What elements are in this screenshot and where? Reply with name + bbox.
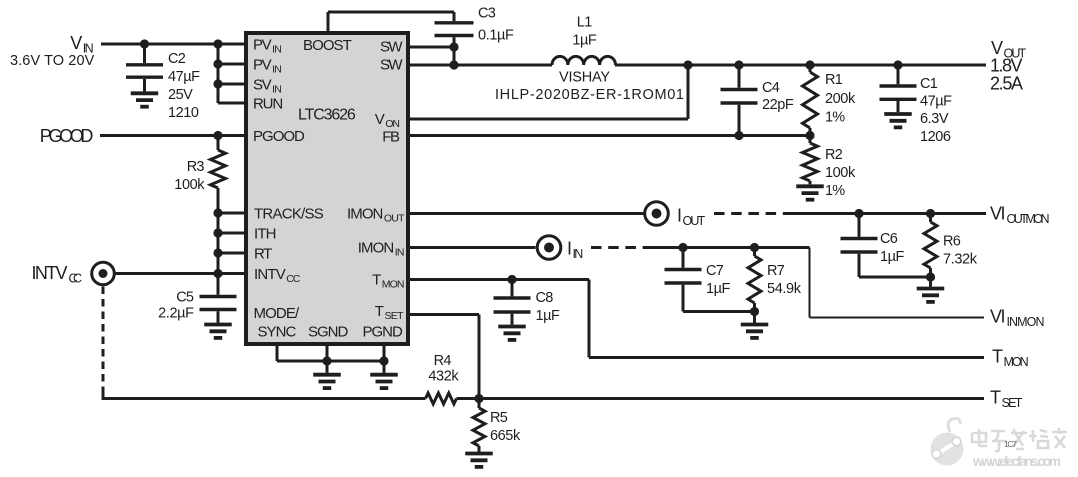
svg-text:INTV: INTV [254,266,286,283]
wire TSET rail left corner [102,387,426,399]
svg-text:6.3V: 6.3V [920,111,949,127]
svg-text:ITH: ITH [254,226,277,243]
wire TSET rail right [479,397,984,400]
svg-text:IN: IN [272,64,282,76]
pin label RUN [253,96,283,113]
svg-text:2.2µF: 2.2µF [158,306,194,322]
node SW2 junction dot [449,60,458,69]
svg-text:IN: IN [395,247,405,259]
wire output rail [615,64,986,67]
svg-text:R1: R1 [825,72,843,88]
pin label SW 2 [380,57,403,74]
svg-text:432k: 432k [428,369,459,385]
node label IIN [567,239,583,262]
node label IOUT [677,206,706,229]
svg-text:2.5A: 2.5A [990,74,1023,94]
label C4 value [762,80,794,113]
node VON tap dot [683,60,692,69]
label R7 value [767,263,802,297]
label VIN range [10,53,95,69]
svg-text:PV: PV [253,57,272,74]
capacitor C8 [494,280,531,325]
svg-text:R2: R2 [825,147,843,163]
svg-text:CC: CC [69,272,83,286]
wire RT stub [213,248,248,257]
svg-text:1.8V: 1.8V [990,56,1023,76]
svg-text:22pF: 22pF [762,97,794,113]
node C7 top dot [678,243,687,252]
pin label PGOOD [253,128,305,145]
wire VON route [406,65,688,119]
svg-text:PV: PV [253,37,272,54]
pin label INTVCC [254,266,301,285]
node TSET junction dot [474,394,483,403]
label R5 value [490,410,521,444]
pin label TMON [372,272,404,291]
label C1 value [920,76,952,145]
ground SGND [313,375,341,388]
wire stub PVIN pin 2 [213,59,248,68]
svg-text:IN: IN [573,247,584,261]
ground PGND [370,375,398,388]
node C1 top dot [893,60,902,69]
svg-text:IHLP-2020BZ-ER-1ROM01: IHLP-2020BZ-ER-1ROM01 [495,87,684,103]
resistor R5 [473,399,485,452]
pin label VON [375,111,400,130]
svg-text:IMON: IMON [347,206,383,223]
wire BOOST loop [328,12,454,33]
svg-text:R5: R5 [490,410,508,426]
wire VIN input [101,43,248,46]
node VIN junction dot C2 [140,39,149,48]
svg-text:CC: CC [286,273,301,285]
wire INTVCC [115,269,249,278]
svg-text:BOOST: BOOST [303,37,352,54]
pin label SVIN [253,77,282,96]
pin label TSET [375,303,404,322]
node IOUT terminal circle [645,202,669,226]
wire PGND drop [379,344,388,373]
wire IMONOUT [406,212,644,215]
svg-text:MON: MON [1004,355,1029,369]
svg-text:VISHAY: VISHAY [559,70,610,86]
svg-text:MODE/: MODE/ [254,305,301,322]
svg-text:47µF: 47µF [920,94,952,110]
pin label PGND [363,324,403,341]
wire R7 to ground [753,312,756,323]
svg-text:54.9k: 54.9k [767,281,802,297]
svg-text:1C7: 1C7 [1004,439,1017,449]
svg-text:T: T [992,347,1003,367]
node label PGOOD [40,126,94,146]
svg-text:MON: MON [382,279,405,291]
node label INTVCC [32,263,83,286]
resistor R1 [803,65,818,136]
label R6 value [943,234,978,268]
ground R7 [741,325,769,338]
svg-text:I: I [567,239,572,259]
capacitor C4 [721,65,758,136]
node C4 top dot [734,60,743,69]
capacitor C3 [435,23,474,65]
svg-text:C5: C5 [176,290,194,306]
svg-text:SW: SW [380,39,403,56]
pin label SYNC [258,324,297,341]
pin label PVIN 2 [253,57,282,76]
node R6 top dot [926,209,935,218]
svg-text:C4: C4 [762,80,780,96]
wire TRACK/SS stub [213,208,248,217]
resistor R6 [924,214,937,278]
label R3 value [174,159,205,193]
svg-text:IN: IN [272,84,282,96]
svg-text:100k: 100k [174,177,205,193]
svg-text:SET: SET [385,310,405,322]
wire VIN bus vertical [217,44,220,103]
svg-text:1206: 1206 [920,129,951,145]
svg-text:OUTMON: OUTMON [1007,212,1050,226]
label L1 value [572,15,596,49]
ground C2 [131,93,159,106]
wire TMON route [589,280,984,358]
svg-text:FB: FB [382,129,400,146]
inductor L1 [552,56,616,65]
svg-text:SV: SV [253,77,272,94]
wire IMONIN [406,246,536,249]
svg-text:SYNC: SYNC [258,324,297,341]
resistor R7 [748,248,761,312]
wire INTVCC dashed drop [102,287,105,390]
svg-text:C3: C3 [478,6,496,22]
wire stub SVIN pin [213,79,248,88]
svg-text:1210: 1210 [168,105,199,121]
label L1 part number [495,70,684,104]
pin label IMONIN [358,240,405,259]
label IC part number LTC3626 [298,107,356,124]
svg-text:200k: 200k [825,91,856,107]
svg-text:www.elecfans.com: www.elecfans.com [972,454,1061,469]
svg-text:C2: C2 [168,51,186,67]
pin label MODE/ [254,305,301,322]
svg-text:V: V [70,33,82,53]
svg-text:OUT: OUT [683,214,706,228]
node VIN junction dot bus [213,39,222,48]
svg-text:OUT: OUT [384,213,405,225]
label R4 value [428,353,459,385]
svg-text:SW: SW [380,57,403,74]
svg-text:RT: RT [254,246,272,263]
svg-text:47µF: 47µF [168,69,200,85]
op-amp U1 LTC3626 IC body [246,33,408,344]
svg-text:R3: R3 [187,159,205,175]
node label TMON output [992,347,1029,370]
svg-text:PGND: PGND [363,324,403,341]
resistor R3 [211,136,226,214]
svg-text:1µF: 1µF [572,33,596,49]
capacitor C6 [841,214,931,278]
wire SW2 to inductor [406,64,552,67]
wire R6 to ground [929,277,932,287]
capacitor C1 [880,65,917,112]
wire IIN monitor net [646,246,810,249]
svg-text:0.1µF: 0.1µF [478,28,514,44]
ground R6 [917,289,945,302]
svg-text:VI: VI [990,307,1006,327]
pin label BOOST [303,37,352,54]
node label VIN [70,33,93,56]
label C2 value [168,51,200,121]
pin label PVIN 1 [253,37,282,56]
node label TSET output [990,388,1023,411]
svg-text:TRACK/SS: TRACK/SS [254,206,324,223]
pin label ITH [254,226,277,243]
pin label TRACK/SS [254,206,324,223]
svg-text:C7: C7 [706,263,724,279]
label R1 value [825,72,856,126]
label R2 value [825,147,856,199]
svg-text:INTV: INTV [32,263,68,283]
label VOUT voltage [990,56,1023,76]
wire TRACK bus vertical [217,213,220,274]
svg-text:1µF: 1µF [880,249,904,265]
node SW1 junction dot [449,42,458,51]
wire TSET pin route [406,315,479,399]
wire ITH stub [213,228,248,237]
svg-text:R7: R7 [767,263,785,279]
node R6 bottom dot [926,272,935,281]
ground C8 [498,327,526,340]
svg-text:IN: IN [272,44,282,56]
ground R2 [796,186,824,199]
svg-text:R4: R4 [434,353,452,369]
watermark elecfans logo [931,419,1068,469]
pin label SGND [308,324,348,341]
ground R5 [465,454,493,467]
svg-text:1µF: 1µF [536,308,560,324]
capacitor C7 [665,248,755,312]
svg-text:1µF: 1µF [706,281,730,297]
node C6 top dot [854,209,863,218]
ground C1 [884,114,912,127]
svg-text:3.6V TO 20V: 3.6V TO 20V [10,53,95,69]
label C6 value [880,231,904,265]
wire IOUT dashed [714,212,786,215]
svg-text:SET: SET [1002,396,1023,410]
svg-text:7.32k: 7.32k [943,252,978,268]
node R7 bottom dot [750,307,759,316]
svg-text:C8: C8 [536,290,554,306]
wire PGOOD [100,131,248,140]
svg-text:V: V [375,111,385,128]
ground C5 [204,325,232,338]
label C5 value [158,290,194,322]
wire FB [406,131,815,140]
svg-text:IMON: IMON [358,240,394,257]
wire VIOUTMON rail [784,212,986,215]
svg-text:T: T [372,272,381,289]
resistor R4 [426,393,457,404]
svg-text:C1: C1 [920,76,938,92]
svg-text:PGOOD: PGOOD [253,128,305,145]
svg-text:C6: C6 [880,231,898,247]
svg-text:T: T [990,388,1001,408]
wire IIN dashed [591,246,648,249]
pin label IMONOUT [347,206,405,225]
svg-text:1%: 1% [825,110,845,126]
svg-text:INMON: INMON [1007,315,1045,329]
pin label RT [254,246,272,263]
svg-text:R6: R6 [943,234,961,250]
svg-text:I: I [677,206,682,226]
pin label FB [382,129,400,146]
resistor R2 [803,136,818,185]
label VOUT current [990,74,1023,94]
wire MODE/SYNC route [277,346,327,361]
capacitor C2 [126,44,163,91]
node R7 top dot [750,243,759,252]
svg-text:L1: L1 [577,15,593,31]
wire stub RUN pin [218,102,248,105]
label C3 value [478,6,514,44]
label C8 value [536,290,560,324]
node label VIINMON [990,307,1045,330]
svg-text:T: T [375,303,384,320]
capacitor C5 [200,274,237,323]
svg-text:SGND: SGND [308,324,348,341]
node label VOUT [991,38,1027,61]
svg-text:PGOOD: PGOOD [40,126,94,146]
svg-text:100k: 100k [825,165,856,181]
svg-text:RUN: RUN [253,96,283,113]
wire R4 to junction [457,397,480,400]
svg-text:LTC3626: LTC3626 [298,107,356,124]
svg-text:1%: 1% [825,183,845,199]
node IIN terminal circle [537,236,561,260]
wire SGND drop [322,344,384,373]
svg-text:25V: 25V [168,87,193,103]
svg-text:665k: 665k [490,428,521,444]
svg-text:VI: VI [990,204,1006,224]
wire SW1 stub [406,46,454,49]
wire TMON [406,275,589,284]
label C7 value [706,263,730,297]
node R1 top dot [805,60,814,69]
wire VIINMON route [810,248,985,318]
node INTVCC terminal circle [92,262,115,285]
pin label SW 1 [380,39,403,56]
node label VIOUTMON [990,204,1050,227]
